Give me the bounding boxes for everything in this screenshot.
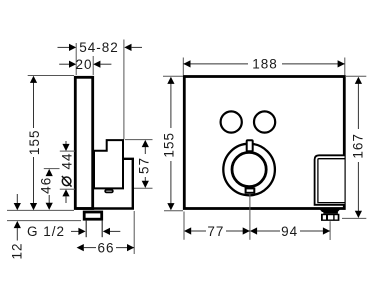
- dimension 94: [250, 224, 330, 239]
- plate left extension line: [183, 212, 185, 240]
- knob outer ring: [223, 144, 275, 196]
- dimension 155 (side): [7, 76, 74, 211]
- svg-text:20: 20: [75, 57, 92, 72]
- knob top marker tab: [247, 140, 253, 151]
- dimension 188: [183, 57, 344, 75]
- escutcheon plate (side): [75, 77, 92, 208]
- dimension 20: [59, 56, 111, 75]
- select button right: [254, 111, 275, 132]
- knob centre extension line: [249, 194, 251, 240]
- svg-text:44: 44: [59, 152, 74, 169]
- dimension 46: [38, 169, 59, 210]
- svg-text:188: 188: [252, 57, 278, 72]
- svg-text:12: 12: [9, 242, 24, 259]
- dimension 77: [184, 224, 250, 239]
- shelf inner outline: [318, 159, 345, 203]
- outlet hex nut: [321, 214, 339, 221]
- outlet nipple (side): [84, 212, 102, 219]
- dimension 57: [125, 140, 153, 189]
- shelf outer outline: [315, 155, 345, 205]
- svg-text:54-82: 54-82: [79, 40, 119, 55]
- G 1/2 label and leaders: [27, 224, 120, 239]
- svg-text:155: 155: [161, 132, 176, 158]
- dimension 54-82: [58, 40, 143, 75]
- concealed body outer step: [76, 159, 133, 209]
- clip pill: [105, 190, 113, 193]
- svg-text:46: 46: [38, 177, 53, 194]
- dimension 167: [342, 76, 366, 218]
- dimension 155 (front): [161, 76, 183, 210]
- dimension 66: [77, 211, 135, 255]
- outlet centre extension line: [329, 221, 331, 240]
- outlet taper under shelf: [319, 208, 341, 212]
- svg-text:77: 77: [207, 224, 224, 239]
- svg-text:167: 167: [350, 133, 365, 159]
- knob bottom safety button: [246, 188, 255, 192]
- front plate: [184, 77, 344, 209]
- svg-text:G 1/2: G 1/2: [27, 224, 65, 239]
- knob inner ring: [232, 152, 266, 186]
- svg-text:94: 94: [281, 224, 298, 239]
- select button left: [221, 111, 242, 132]
- outlet neck: [323, 212, 338, 214]
- svg-text:57: 57: [136, 157, 151, 174]
- svg-text:155: 155: [27, 130, 42, 156]
- wall surface line: [123, 40, 125, 140]
- dimension 12: [7, 194, 81, 260]
- concealed body (upper box + main box): [94, 140, 123, 188]
- svg-text:66: 66: [97, 240, 114, 255]
- dimension diameter 44: [59, 141, 75, 203]
- G1/2 pipe (side): [86, 221, 102, 238]
